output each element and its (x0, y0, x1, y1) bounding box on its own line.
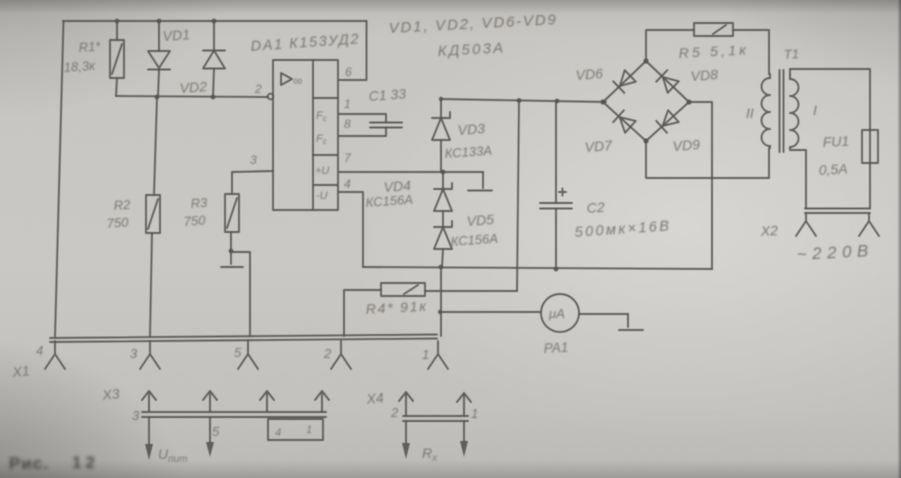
connector X1 pin 2 (331, 341, 351, 369)
fuse FU1 (862, 130, 878, 208)
label -U (316, 190, 328, 202)
diode VD8 (top-right arm) (656, 70, 679, 93)
transformer T1 winding II (762, 74, 771, 148)
label C1 33 (368, 85, 407, 104)
wire rail2 (pin2 input bus) (116, 96, 268, 97)
label X3 (101, 385, 121, 403)
label KC156A lower (450, 231, 498, 249)
zener VD5 (434, 221, 452, 267)
label X3 pin 1 (306, 424, 312, 436)
label R2 (113, 197, 131, 213)
connector X3 rail (142, 412, 326, 417)
diode bridge: top corner wire to R5 (646, 30, 694, 61)
label X4 (365, 389, 385, 407)
label Rx (422, 445, 438, 464)
node dot VD2 top (212, 19, 217, 24)
label pin 2 (254, 82, 262, 96)
connector X3 pin arrow 3 (260, 391, 274, 412)
connector X4 pin arrow left (399, 392, 413, 416)
resistor R1 (110, 21, 124, 96)
transformer T1 winding I (790, 75, 799, 147)
label X3 pin 3 (132, 408, 140, 423)
label +U (315, 165, 329, 177)
transformer T1 core (780, 70, 784, 152)
connector X3 pin arrow 1 (142, 391, 156, 412)
label X1 pin4 number (36, 343, 43, 358)
label X4 pin 1 (471, 406, 478, 421)
connector X1 rail (50, 335, 437, 343)
connector X4 rail (403, 416, 468, 421)
node dot R1 top (115, 19, 120, 24)
node dot rail R4 (517, 98, 522, 103)
connector X2 pin left (796, 213, 816, 236)
label VD8 (690, 66, 718, 84)
label VD2 (179, 78, 207, 96)
node dot rail C2 (555, 99, 560, 104)
resistor R5 (694, 23, 769, 74)
X3 jumper box pins 4-1 (268, 419, 323, 440)
connector X1 pin 5 (238, 341, 258, 369)
diode VD6 (top-left arm) (613, 70, 636, 93)
diode VD7 (bottom-left arm) (613, 110, 636, 133)
wire pin4 down to bottom rail (339, 192, 363, 267)
node dot pin7/VD3 junction (441, 170, 446, 175)
label T1 (783, 46, 799, 62)
node dot VD1 top (157, 19, 162, 24)
label Upit (158, 446, 188, 465)
zener VD3 (432, 99, 450, 172)
label R2 750 (106, 214, 129, 231)
wire bridge bottom corner to transformer (646, 141, 769, 178)
label R3 750 (183, 212, 206, 229)
label DA1 K153UD2 (250, 31, 360, 55)
label pin 8 (344, 117, 351, 131)
label X2 (759, 222, 778, 239)
connector X3 pin arrow 2 (203, 391, 217, 412)
label X3 pin 5 (212, 424, 220, 439)
ground at PA1 (619, 314, 643, 330)
label X1 pin1 number (422, 347, 429, 362)
capacitor C1 with pin1/pin8 wires (339, 114, 402, 136)
X3 external lead Upit right (206, 417, 214, 457)
label winding II (746, 105, 754, 121)
caption Ris. 12 (9, 453, 99, 473)
bridge corner dots (600, 58, 691, 143)
label VD7 (584, 137, 613, 155)
wire winding I top to fuse (790, 69, 870, 130)
wire pin6 to top rail (339, 21, 367, 80)
label VD9 (672, 136, 700, 154)
label Fc lower (316, 133, 327, 146)
label KC156A upper (365, 192, 413, 210)
ground at pin7 (468, 172, 492, 191)
connector X2 pin right (859, 213, 879, 236)
label VD1,VD2,VD6-VD9 (388, 11, 558, 37)
zener VD4 (434, 172, 452, 227)
bridge arm lines (603, 61, 689, 141)
node dot bottom rail C2 (554, 267, 559, 272)
diode VD2 (203, 21, 225, 97)
wire right supply rail (441, 99, 606, 102)
X4 external lead Rx left (402, 421, 410, 459)
capacitor C2 (540, 101, 572, 269)
diode VD1 (148, 21, 170, 97)
node dot rail2 VD1 (155, 95, 160, 100)
connector X2 rail (805, 209, 870, 214)
label 500mk x 16V (574, 218, 672, 241)
connector X1 pin 3 (140, 341, 160, 369)
label VD4 (383, 177, 411, 195)
label R1* (78, 38, 102, 55)
meter PA1 (438, 267, 628, 336)
label 0,5A (818, 161, 848, 178)
X4 external lead Rx right (460, 421, 468, 457)
label X4 pin 2 (390, 405, 399, 420)
label R4* 91k (365, 298, 428, 317)
label PA1 (543, 340, 568, 356)
node dot rail2 VD2 (211, 95, 216, 100)
label X1 pin5 number (234, 345, 242, 360)
label 18,3k (63, 58, 96, 75)
label VD5 (466, 211, 494, 229)
label pin 3 (250, 153, 257, 167)
resistor R4 (344, 283, 517, 336)
label X1 (11, 362, 31, 380)
connector X3 pin arrow 4 (315, 391, 329, 412)
wire left column X1 pin4 (55, 21, 64, 337)
label pin 7 (344, 151, 352, 165)
label pin 1 (344, 97, 351, 111)
node dot R3 bottom (229, 249, 234, 254)
wire bridge left corner to supply rail (already) / wire bridge right corner down (689, 102, 712, 269)
op-amp pin2 circle (268, 94, 274, 100)
resistor R2 (146, 97, 160, 336)
connector X4 pin arrow right (457, 393, 471, 416)
resistor R3 (225, 171, 273, 251)
node dot bottom rail VD5 (439, 265, 444, 270)
label winding I (813, 102, 817, 118)
connector X1 pin 4 (45, 341, 65, 369)
label X1 pin3 number (130, 346, 138, 361)
label pin 6 (345, 65, 352, 79)
label R3 (190, 195, 208, 211)
connector X1 pin 1 (428, 341, 448, 369)
wire top rail (op-amp output feedback bus) (63, 20, 367, 22)
wire R4 up to supply rail (517, 101, 519, 291)
label Fc upper (316, 110, 327, 123)
X3 external lead Upit left (145, 417, 153, 460)
op-amp DA1 box (273, 60, 338, 210)
label X1 pin2 number (323, 346, 332, 361)
label R5 5,1k (678, 41, 749, 61)
op-amp gain symbol (281, 73, 302, 88)
label VD1 (162, 26, 190, 44)
diode VD9 (bottom-right arm) (656, 110, 679, 133)
wire winding I bottom to X2 (790, 147, 806, 208)
label X3 pin 4 (275, 427, 281, 439)
label ~220V (796, 241, 874, 264)
node dot rail left end (439, 97, 443, 101)
label VD6 (575, 65, 603, 83)
ground at R3 (221, 251, 243, 267)
label FU1 (822, 133, 849, 150)
wire R3 node to X1 pin5 (231, 252, 250, 336)
label C2 (586, 199, 605, 216)
label KC133A (444, 143, 492, 161)
wire pin7 rail (339, 171, 483, 173)
label VD3 (457, 120, 485, 138)
wire bottom rail (363, 267, 712, 269)
label KD503A (437, 39, 505, 60)
label pin 4 (344, 177, 351, 191)
